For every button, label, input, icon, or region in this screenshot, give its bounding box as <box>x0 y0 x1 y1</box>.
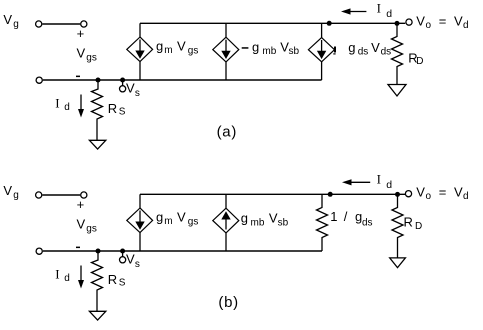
svg-text:Vo=Vd: Vo=Vd <box>416 14 468 32</box>
ground under Rs (b) <box>89 311 105 320</box>
artifact tick near gds diamond (a) <box>334 47 336 53</box>
svg-text:Vo=Vd: Vo=Vd <box>416 185 468 203</box>
terminal gate open circle left (a) <box>36 21 42 27</box>
svg-text:g: g <box>13 19 19 30</box>
resistor RS (a) <box>92 80 103 140</box>
junction RD node dot (a) <box>395 21 400 26</box>
current arrow Id drain (b) <box>349 181 370 183</box>
svg-text:g: g <box>13 190 19 201</box>
svg-text:(b): (b) <box>218 294 238 311</box>
ground under RD (a) <box>388 85 406 97</box>
svg-text:+: + <box>77 26 85 41</box>
svg-text:V: V <box>3 12 12 27</box>
ground under Rs (a) <box>89 140 105 149</box>
svg-text:+: + <box>77 197 85 212</box>
svg-text:V: V <box>3 183 12 198</box>
dependent source gds Vds (a) <box>321 23 323 37</box>
wire gate lead (b) <box>42 194 80 196</box>
ground under RD (b) <box>390 258 406 268</box>
svg-text:(a): (a) <box>217 123 237 140</box>
terminal gate open circle left (b) <box>36 192 42 198</box>
label minus gmb Vsb (a) <box>242 47 249 49</box>
junction Vs node dot and stub (a) <box>120 78 125 83</box>
resistor RD (b) <box>392 194 403 258</box>
wire bottom rail (a) <box>43 79 322 81</box>
terminal Vs open circle (a) <box>120 86 126 92</box>
dependent source gm Vgs (b) <box>139 194 141 208</box>
terminal Vo open circle (b) <box>405 191 411 197</box>
label minus sign Vgs (a) <box>76 76 80 78</box>
resistor RS (b) <box>92 251 103 311</box>
current arrow Id (b) <box>80 266 82 282</box>
terminal source open circle (b) <box>36 248 42 254</box>
terminal gate open circle right (b) <box>81 192 87 198</box>
current arrow Id drain (a) <box>348 11 366 13</box>
resistor RD (a) <box>392 23 403 84</box>
terminal Vs open circle (b) <box>120 257 126 263</box>
junction Rs node dot (a) <box>96 78 101 83</box>
junction Rs node dot (b) <box>96 249 101 254</box>
junction RD node dot (b) <box>395 192 400 197</box>
label minus sign Vgs (b) <box>76 247 80 249</box>
junction drain node dot (b) <box>328 192 333 197</box>
junction drain node dot (a) <box>327 21 332 26</box>
junction Vs node dot and stub (b) <box>120 249 125 254</box>
wire bottom rail (b) <box>43 250 322 252</box>
terminal source open circle (a) <box>36 77 42 83</box>
terminal gate open circle right (a) <box>81 21 87 27</box>
wire top rail (a) <box>140 22 405 24</box>
terminal Vo open circle (a) <box>406 19 412 25</box>
wire top rail (b) <box>140 193 405 195</box>
dependent source gmb Vsb up arrow (b) <box>225 194 227 208</box>
resistor 1/gds (b) <box>317 194 328 251</box>
wire gate lead (a) <box>42 23 80 25</box>
current arrow Id (a) <box>80 95 82 111</box>
dependent source gm Vgs (a) <box>139 23 141 37</box>
dependent source gmb Vsb (a) <box>225 23 227 37</box>
